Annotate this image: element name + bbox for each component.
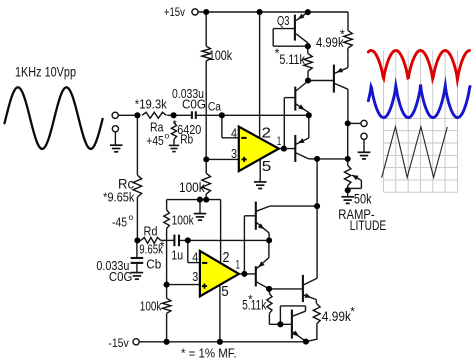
svg-text:Ca: Ca (208, 102, 222, 114)
svg-text:*19.3k: *19.3k (135, 97, 167, 112)
svg-text:+15v: +15v (164, 7, 185, 19)
svg-text:*: * (248, 293, 253, 307)
svg-text:-15v: -15v (108, 336, 128, 350)
svg-text:LITUDE: LITUDE (350, 218, 386, 233)
svg-text:Q3: Q3 (277, 13, 290, 28)
svg-text:1KHz 10Vpp: 1KHz 10Vpp (15, 65, 76, 80)
svg-text:100k: 100k (179, 180, 205, 195)
svg-text:o: o (129, 212, 134, 222)
svg-text:Rb: Rb (180, 132, 193, 147)
svg-text:5: 5 (262, 159, 272, 175)
svg-text:2: 2 (223, 250, 230, 266)
svg-text:4.99k: 4.99k (322, 309, 351, 324)
svg-text:100k: 100k (209, 47, 233, 63)
svg-text:3: 3 (192, 269, 198, 284)
svg-text:2: 2 (262, 126, 272, 142)
svg-text:*: * (340, 27, 345, 42)
svg-text:100k: 100k (140, 299, 162, 314)
svg-text:*: * (350, 305, 355, 319)
svg-text:*9.65k: *9.65k (103, 190, 135, 205)
svg-text:3: 3 (231, 146, 237, 161)
svg-text:50k: 50k (354, 192, 372, 207)
svg-text:C0G: C0G (109, 269, 132, 284)
svg-text:Cb: Cb (146, 257, 161, 272)
svg-text:1u: 1u (171, 247, 183, 262)
svg-text:* = 1% MF.: * = 1% MF. (181, 346, 237, 361)
svg-text:-45: -45 (112, 215, 127, 230)
svg-text:+45: +45 (146, 133, 164, 148)
svg-text:1: 1 (277, 136, 282, 148)
svg-text:C0G: C0G (182, 97, 206, 112)
svg-text:4: 4 (231, 125, 237, 140)
svg-text:*: * (275, 46, 280, 61)
svg-text:o: o (165, 131, 170, 141)
svg-text:4: 4 (192, 250, 198, 265)
svg-text:1: 1 (236, 260, 241, 272)
svg-text:5: 5 (221, 284, 229, 300)
svg-text:*: * (160, 239, 165, 254)
svg-text:*: * (173, 119, 177, 130)
svg-text:5.11k: 5.11k (279, 52, 305, 67)
svg-text:Rd: Rd (144, 223, 158, 238)
svg-text:5.11k: 5.11k (242, 296, 267, 312)
svg-text:100k: 100k (172, 213, 195, 228)
